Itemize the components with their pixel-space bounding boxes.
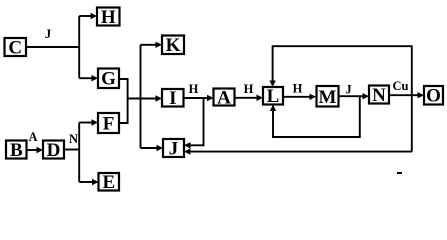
svg-text:H: H xyxy=(244,82,254,96)
svg-text:G: G xyxy=(101,69,116,90)
label H after I xyxy=(189,82,199,96)
wire into E xyxy=(79,179,98,185)
svg-text:Cu: Cu xyxy=(393,79,409,93)
wire I to A xyxy=(184,95,214,101)
box K xyxy=(162,35,184,56)
box L xyxy=(263,86,283,107)
wire merged into I xyxy=(128,95,162,101)
wire bottom loop M-N to L bottom xyxy=(270,96,360,137)
wire into F xyxy=(79,119,98,125)
wire D output xyxy=(64,149,79,151)
wire L to M xyxy=(283,94,316,100)
wire vertical C junction xyxy=(78,16,80,78)
svg-text:J: J xyxy=(345,83,351,97)
box B xyxy=(6,140,27,161)
svg-text:H: H xyxy=(293,82,303,96)
box E xyxy=(99,172,120,193)
wire C output xyxy=(26,46,79,48)
wire into J left xyxy=(141,145,164,151)
wire branch down to J upper right xyxy=(184,98,204,149)
box O xyxy=(424,86,443,107)
label H after A xyxy=(244,82,254,96)
label J on wire C xyxy=(45,27,51,41)
svg-text:D: D xyxy=(47,140,61,161)
wire N to O xyxy=(389,92,424,98)
wire G output elbow xyxy=(119,79,128,99)
box F xyxy=(98,113,119,135)
box A xyxy=(214,88,235,109)
wire A to L xyxy=(235,95,264,101)
box D xyxy=(43,140,64,161)
svg-text:C: C xyxy=(8,38,22,59)
svg-text:I: I xyxy=(169,88,176,109)
svg-text:N: N xyxy=(372,85,386,106)
label N on wire D xyxy=(69,132,78,146)
label J after M xyxy=(345,83,351,97)
wire vertical K-J trunk xyxy=(140,45,142,148)
label A on wire B-D xyxy=(28,130,37,144)
box J xyxy=(163,139,184,160)
label H after L xyxy=(293,82,303,96)
wire into K xyxy=(141,42,163,48)
box C xyxy=(5,38,27,59)
svg-text:H: H xyxy=(101,7,116,28)
svg-text:B: B xyxy=(10,140,23,161)
svg-text:O: O xyxy=(426,86,441,107)
wire into H xyxy=(79,13,97,19)
box I xyxy=(162,88,184,109)
label Cu after N xyxy=(393,79,409,93)
box N xyxy=(369,85,389,106)
svg-text:F: F xyxy=(103,114,115,135)
box H xyxy=(97,7,120,28)
svg-text:N: N xyxy=(69,132,78,146)
wire long feedback into J lower right xyxy=(184,148,412,154)
svg-text:M: M xyxy=(319,87,337,108)
wire vertical D junction xyxy=(78,123,80,183)
wire M to N xyxy=(339,93,370,99)
svg-text:A: A xyxy=(28,130,37,144)
wire F output elbow xyxy=(119,99,128,124)
svg-text:K: K xyxy=(166,35,181,56)
svg-text:H: H xyxy=(189,82,199,96)
wire top feedback loop xyxy=(269,46,411,151)
stray dash mark xyxy=(397,172,402,174)
svg-text:A: A xyxy=(217,88,231,109)
svg-text:L: L xyxy=(267,86,280,107)
svg-text:J: J xyxy=(169,139,179,160)
wire B to D xyxy=(27,147,44,153)
svg-text:J: J xyxy=(45,27,51,41)
box G xyxy=(98,69,119,90)
wire into G xyxy=(79,75,98,81)
svg-text:E: E xyxy=(102,172,115,193)
box M xyxy=(317,86,339,108)
